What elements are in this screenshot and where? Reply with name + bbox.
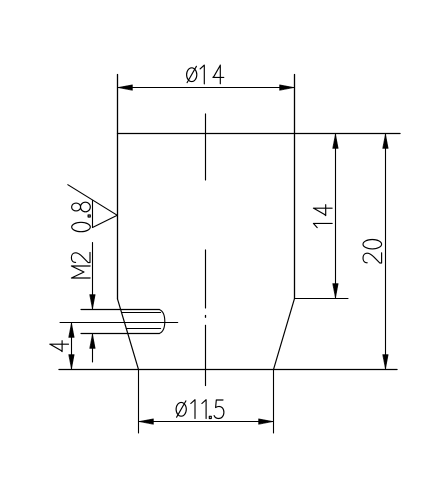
arrowhead dim20 bottom [383, 355, 389, 370]
tapped hole M2 bottom major line with left extension [81, 333, 159, 335]
vertical centerline dot [205, 316, 207, 318]
arrowhead dia11.5 right [259, 419, 274, 425]
extension line at shoulder for dimension 14 [295, 298, 349, 300]
dimension line M2 lower segment [92, 334, 94, 363]
text 14 rotated [313, 205, 332, 228]
tapped hole M2 centerline [60, 322, 178, 324]
arrowhead M2 upper pointing down [90, 295, 96, 310]
dimension line 14 right side [335, 134, 337, 299]
surface roughness symbol triangle back edge [92, 200, 94, 228]
text ø14 [187, 65, 224, 84]
arrowhead dim20 top [383, 134, 389, 149]
part body right edge with upper extension line [294, 75, 296, 299]
extension line dia11.5 left [138, 370, 140, 434]
arrowhead M2 lower pointing up [90, 334, 96, 349]
text 0.8 rotated [72, 202, 91, 232]
dimension line 20 right side [385, 134, 387, 370]
text 4 rotated [50, 341, 69, 352]
surface roughness symbol leader leg [68, 185, 118, 216]
tapped hole M2 top major line with left extension [81, 309, 159, 311]
arrowhead dim14 bottom [333, 284, 339, 299]
dimension line diameter 11.5 [139, 421, 274, 423]
part body left taper edge [118, 299, 139, 370]
vertical centerline dash segment 3 [205, 325, 207, 385]
tapped hole M2 top minor line [122, 312, 161, 314]
arrowhead dim14 top [333, 134, 339, 149]
arrowhead dim4 bottom pointing down [69, 355, 75, 370]
tapped hole M2 rounded end arc [159, 310, 165, 334]
part body bottom edge with left and right extension lines [59, 369, 397, 371]
part body top edge with right extension line [118, 133, 401, 135]
extension line dia11.5 right [273, 370, 275, 434]
dimension line M2 upper segment [92, 243, 94, 310]
text 20 rotated [363, 240, 382, 264]
text M2 rotated [71, 252, 90, 278]
part body right taper edge [274, 299, 295, 370]
vertical centerline dash segment 1 [205, 114, 207, 180]
arrowhead dim4 top pointing up [69, 323, 75, 338]
arrowhead dia14 right [280, 85, 295, 91]
part body left edge with upper extension line [117, 75, 119, 300]
text ø11.5 [176, 400, 224, 419]
arrowhead dia11.5 left [139, 419, 154, 425]
arrowhead dia14 left [118, 85, 133, 91]
vertical centerline dash segment 2 [205, 250, 207, 308]
surface roughness symbol triangle lower leg [93, 215, 118, 227]
dimension line diameter 14 [118, 87, 295, 89]
dimension line 4 left side [71, 323, 73, 370]
tapped hole M2 bottom minor line [126, 328, 160, 330]
